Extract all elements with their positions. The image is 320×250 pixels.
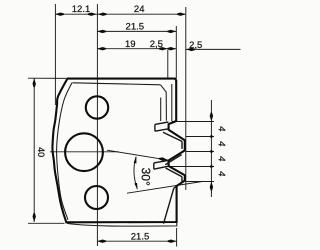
dimension line 21.5 top bbox=[97, 30, 176, 32]
extension 40 bottom bbox=[28, 222, 65, 224]
bevel lower edge bbox=[174, 183, 182, 189]
arrow arc bottom bbox=[134, 183, 137, 190]
extension line 21.5 top bbox=[175, 26, 177, 79]
bevel flank notch2 bbox=[165, 155, 181, 165]
bottom band lower line bbox=[67, 222, 177, 226]
centerline big circle bbox=[50, 151, 119, 153]
dot mid 3 bbox=[210, 165, 213, 168]
arrow 40 top bbox=[33, 78, 36, 87]
extension L5 bbox=[186, 181, 214, 183]
dot mid 2 bbox=[210, 150, 213, 153]
dimension line 4x4 bbox=[210, 100, 212, 197]
dimension line 2,5 right bbox=[186, 48, 241, 50]
arrow 24 left bbox=[98, 13, 107, 16]
svg-text:30°: 30° bbox=[138, 167, 153, 186]
angle arc 30 bbox=[134, 157, 137, 189]
arrow 4 bottom bbox=[210, 182, 213, 191]
extension 40 top bbox=[28, 77, 66, 79]
svg-text:21.5: 21.5 bbox=[126, 22, 145, 33]
hole bottom bbox=[85, 186, 108, 209]
notch1 side block left bbox=[154, 124, 156, 131]
bevel left arc bbox=[57, 83, 72, 220]
svg-text:19: 19 bbox=[125, 39, 136, 50]
arrow 12.1 right bbox=[88, 13, 97, 16]
bevel tip1 face bbox=[181, 141, 183, 149]
notch2 side block top bbox=[154, 160, 169, 163]
hole center bbox=[65, 133, 103, 171]
extension line bottom right bbox=[176, 228, 178, 247]
extension line 24 bbox=[185, 7, 187, 190]
extension L3 bbox=[186, 151, 214, 153]
notch1 side block bottom bbox=[155, 129, 169, 131]
bevel flank tooth1 bbox=[163, 132, 182, 141]
arrow 24 right bbox=[177, 13, 186, 16]
notch2 side block bottom bbox=[154, 166, 169, 169]
arrow 19 left bbox=[97, 47, 106, 50]
arrow 21.5 bottom left bbox=[97, 240, 106, 243]
bevel right upper bbox=[171, 84, 173, 121]
arrow 12.1 left bbox=[55, 13, 64, 16]
bevel lower right back edge bbox=[164, 188, 174, 224]
angle leg A bbox=[107, 150, 169, 160]
arrow 40 bottom bbox=[33, 213, 36, 222]
bevel inner line 2 bbox=[160, 98, 162, 122]
svg-text:12.1: 12.1 bbox=[72, 4, 91, 15]
body outline bbox=[52, 79, 184, 223]
svg-text:2,5: 2,5 bbox=[150, 39, 163, 50]
svg-text:2,5: 2,5 bbox=[189, 40, 202, 51]
arrow 2,5b bbox=[186, 48, 195, 51]
bevel tip2 face bbox=[181, 177, 183, 183]
angle leg B bbox=[127, 181, 203, 193]
dimension line 40 bbox=[33, 78, 35, 222]
notch2 side block left bbox=[153, 163, 155, 169]
svg-text:40: 40 bbox=[36, 147, 46, 157]
notch1 side block top bbox=[155, 122, 169, 124]
arrow 4 top bbox=[210, 113, 213, 122]
extension L2 bbox=[186, 136, 214, 138]
dot mid 1 bbox=[210, 135, 213, 138]
svg-text:24: 24 bbox=[134, 4, 145, 15]
dimension line 19 / 2,5 bbox=[97, 48, 176, 50]
arrow leg A bbox=[159, 157, 168, 160]
extension line left (12.1) bbox=[54, 4, 56, 105]
svg-text:21.5: 21.5 bbox=[131, 231, 150, 242]
hole top bbox=[86, 96, 108, 118]
arrow 21.5 bottom right bbox=[168, 240, 177, 243]
arrow 21.5 right bbox=[167, 30, 176, 33]
extension line 19 bbox=[167, 50, 169, 78]
extension L1 bbox=[172, 121, 214, 123]
arrow 21.5 left bbox=[97, 30, 106, 33]
arrow arc top bbox=[134, 156, 137, 163]
arrow 2,5a bbox=[167, 47, 176, 50]
bevel flank tooth2 bbox=[166, 168, 182, 177]
dimension line 21.5 bottom bbox=[97, 240, 177, 242]
dimension line 12.1 / 24 bbox=[55, 13, 186, 15]
centerline vertical bbox=[96, 4, 98, 246]
bevel top edge bbox=[73, 83, 161, 85]
arrow 19 right bbox=[159, 47, 168, 50]
extension L4 bbox=[169, 166, 214, 168]
bevel inner corner diagonal bbox=[161, 85, 167, 121]
